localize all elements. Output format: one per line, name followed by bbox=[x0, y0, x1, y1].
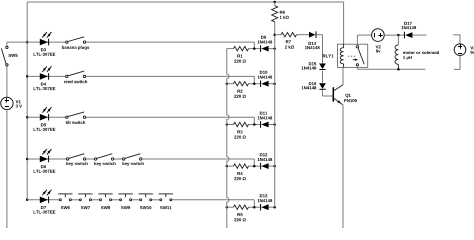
inductor motor or solenoid 1uH bbox=[395, 45, 439, 69]
node jog/row 3 junction bbox=[253, 123, 256, 126]
node feed bus / row 2 bbox=[26, 75, 29, 78]
diode D17 1N4148 bbox=[401, 22, 416, 39]
wire D16 to Q1 base bbox=[323, 90, 333, 96]
wire D14 to D15 bbox=[322, 35, 324, 64]
wire ladder row 3 bbox=[227, 124, 275, 126]
switch reed switch bbox=[64, 71, 87, 83]
diode D13 1N4148 bbox=[258, 194, 273, 210]
switch key switch 1 bbox=[66, 154, 87, 166]
node motor bottom junction bbox=[397, 68, 400, 71]
pushbutton switch SW8 bbox=[98, 194, 112, 209]
node ladder row 1 / right bus bbox=[273, 47, 276, 50]
diode D11 1N4148 bbox=[258, 112, 273, 128]
wire ladder row 2 bbox=[227, 83, 275, 85]
node ladder row 2 / left bus bbox=[226, 82, 229, 85]
node feed bus / row 1 bbox=[26, 41, 29, 44]
LED D3 LTL-307EE bbox=[34, 32, 56, 56]
voltage source V2 9v bbox=[372, 29, 385, 53]
voltage source V3 9v bbox=[454, 44, 474, 56]
wire left ladder bus (resistor common, hops over rows) bbox=[227, 49, 229, 228]
diode D9 1N4148 bbox=[258, 36, 273, 52]
wire relay NO contact to bottom wire bbox=[356, 66, 358, 69]
wire right ladder bus top bbox=[274, 2, 276, 207]
wire row 2 bbox=[27, 76, 254, 83]
resistor R6 1 kohm bbox=[272, 6, 289, 22]
node feed bus / row 5 bbox=[26, 199, 29, 202]
node ladder row 5 / left bus bbox=[226, 206, 229, 209]
wire top rail bbox=[27, 1, 343, 3]
wire motor top bbox=[397, 35, 399, 45]
wire ladder row 1 bbox=[227, 48, 275, 50]
node ladder row 4 / right bus bbox=[273, 165, 276, 168]
switch key switch 2 bbox=[94, 154, 115, 166]
node ladder row 3 / right bus bbox=[273, 123, 276, 126]
wire row 4 bbox=[27, 159, 254, 166]
wire D15 to D16 bbox=[322, 71, 324, 84]
resistor R2 220 ohm bbox=[234, 82, 249, 98]
wire R7 row bbox=[275, 34, 323, 36]
voltage source V1 3V bbox=[1, 97, 22, 109]
wire relay common to V2 bbox=[357, 35, 371, 45]
wire Q1 emitter to bottom edge bbox=[342, 105, 344, 228]
wire Q1 collector to relay coil bbox=[342, 67, 344, 84]
node ladder row 5 / right bus bbox=[273, 206, 276, 209]
diode D14 1N4148 bbox=[305, 31, 320, 49]
pushbutton switch SW10 bbox=[139, 194, 153, 209]
LED D7 LTL-307EE bbox=[34, 190, 56, 214]
node jog/row 4 junction bbox=[253, 165, 256, 168]
resistor R5 220 ohm bbox=[234, 205, 249, 221]
diode D15 1N4148 bbox=[302, 62, 326, 69]
wire top rail to relay coil bbox=[343, 2, 345, 44]
relay RLY1 box bbox=[323, 44, 368, 67]
LED D6 LTL-307EE bbox=[34, 149, 56, 173]
transistor Q1 PN100 bbox=[333, 85, 357, 105]
node ladder row 2 / right bus bbox=[273, 82, 276, 85]
LED D4 LTL-307EE bbox=[34, 66, 56, 90]
switch key switch 3 bbox=[123, 154, 144, 166]
wire left feed bus bbox=[26, 2, 28, 200]
wire V3 bottom stub bbox=[454, 56, 460, 70]
wire V1 to bottom edge bbox=[6, 110, 8, 228]
wire V2 to D17 node bbox=[384, 34, 404, 36]
diode D10 1N4148 bbox=[258, 71, 273, 87]
pushbutton switch SW11 bbox=[159, 194, 173, 209]
wire D17 to stub end bbox=[412, 34, 426, 36]
LED D5 LTL-307EE bbox=[34, 107, 56, 131]
resistor R3 220 ohm bbox=[234, 122, 249, 138]
node jog/row 2 junction bbox=[253, 82, 256, 85]
switch tilt switch bbox=[66, 112, 86, 124]
wire SW5 to V1 bbox=[6, 66, 8, 97]
wire row 3 bbox=[27, 117, 254, 124]
wire row 1 bbox=[7, 42, 254, 49]
relay RLY1 coil bbox=[340, 44, 343, 67]
resistor R4 220 ohm bbox=[234, 164, 249, 180]
resistor R7 2 kohm bbox=[281, 33, 297, 49]
node feed bus / row 4 bbox=[26, 158, 29, 161]
diode D16 1N4148 bbox=[302, 82, 326, 89]
wire ladder row 5 bbox=[227, 206, 275, 208]
node jog/row 1 junction bbox=[253, 47, 256, 50]
switch banana plugs bbox=[62, 37, 89, 50]
pushbutton switch SW7 bbox=[78, 194, 92, 209]
wire V3 top stub bbox=[453, 35, 460, 44]
node top rail / R6 junction bbox=[273, 1, 276, 4]
wire row 5 bbox=[27, 200, 254, 207]
switch SW5 bbox=[1, 46, 17, 66]
node jog/row 5 junction bbox=[253, 206, 256, 209]
resistor R1 220 ohm bbox=[234, 46, 249, 62]
wire SW5 top to row 1 bbox=[6, 42, 8, 46]
node feed bus / row 3 bbox=[26, 116, 29, 119]
wire bottom (relay to motor to stub) bbox=[357, 68, 425, 70]
node ladder row 4 / left bus bbox=[226, 165, 229, 168]
node V2 / motor junction bbox=[397, 34, 400, 37]
diode D12 1N4148 bbox=[258, 153, 273, 169]
relay RLY1 contacts bbox=[356, 46, 364, 66]
pushbutton switch SW6 bbox=[58, 194, 72, 209]
node ladder row 3 / left bus bbox=[226, 123, 229, 126]
wire ladder row 4 bbox=[227, 165, 275, 167]
pushbutton switch SW9 bbox=[118, 194, 132, 209]
relay RLY1 actuator (dashed) bbox=[348, 56, 358, 61]
node R7 row / right bus bbox=[273, 33, 276, 36]
